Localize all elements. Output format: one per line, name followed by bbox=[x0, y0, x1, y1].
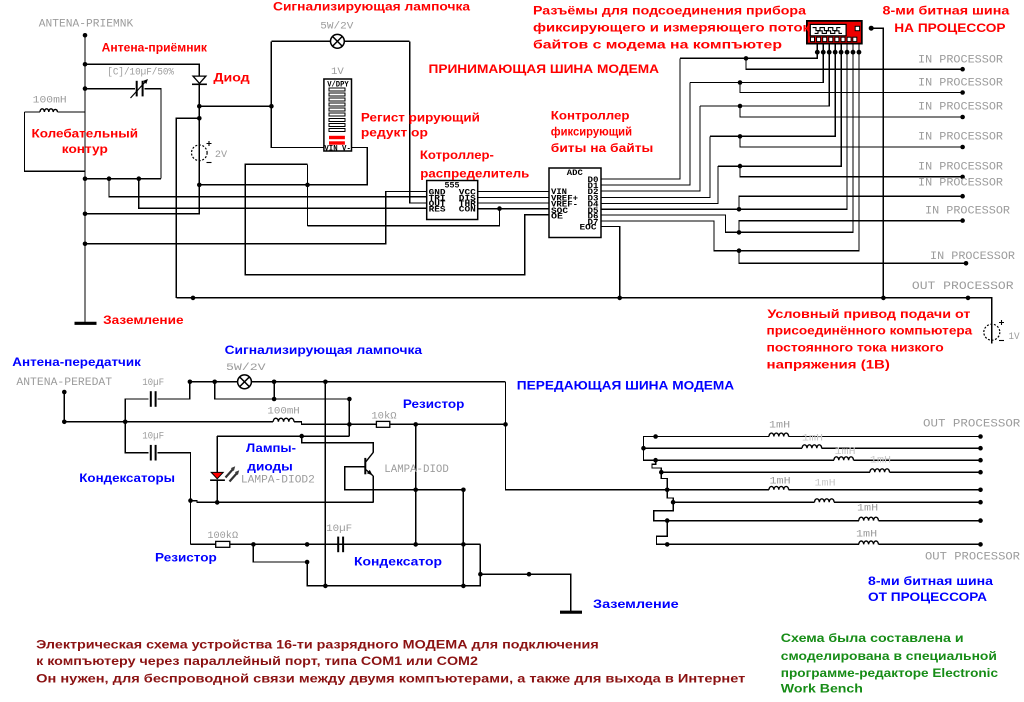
svg-text:1mH: 1mH bbox=[769, 421, 790, 432]
svg-text:Кондексаторы: Кондексаторы bbox=[79, 471, 175, 485]
wire transmit antenna vertical bbox=[63, 392, 65, 422]
svg-text:Котроллер-: Котроллер- bbox=[420, 148, 494, 162]
svg-text:Резистор: Резистор bbox=[403, 397, 465, 411]
wire bit6 ADC D5 feed bbox=[601, 52, 847, 209]
logic analyzer button squares bbox=[811, 37, 857, 41]
wire transistor collector feed bbox=[302, 436, 374, 452]
wire bit2 ADC D1 riser bbox=[601, 83, 690, 186]
svg-text:ПРИНИМАЮЩАЯ ШИНА МОДЕМА: ПРИНИМАЮЩАЯ ШИНА МОДЕМА bbox=[429, 62, 660, 76]
svg-text:ADC: ADC bbox=[567, 169, 583, 178]
wire LED line jog bbox=[191, 501, 374, 503]
node bit3 end bbox=[960, 115, 965, 120]
battery V2 minus sign bbox=[999, 340, 1004, 342]
node ANTENA-PRIEMNK antenna terminal bbox=[83, 33, 88, 38]
svg-text:1mH: 1mH bbox=[835, 447, 856, 458]
svg-text:1mH: 1mH bbox=[857, 504, 878, 515]
node junction CON tap bbox=[497, 206, 502, 211]
svg-text:IN PROCESSOR: IN PROCESSOR bbox=[918, 132, 1003, 144]
svg-text:1V: 1V bbox=[331, 67, 344, 78]
lamp X2 5W/2V bbox=[238, 375, 252, 389]
svg-text:[C]/10µF/50%: [C]/10µF/50% bbox=[107, 67, 174, 79]
wire emitter vertical bbox=[372, 476, 374, 502]
wire bank staircase bbox=[644, 437, 656, 461]
wire bit5 upper level bbox=[718, 52, 841, 166]
svg-text:смоделирована в специальной: смоделирована в специальной bbox=[781, 649, 997, 663]
inductor L1 100mH bumps bbox=[40, 109, 58, 112]
node junction device branch bbox=[881, 296, 886, 301]
logic analyzer side terminal dot bbox=[869, 26, 874, 31]
node junction lamp bypass right bbox=[272, 380, 277, 385]
svg-text:программе-редакторе Electroni: программе-редакторе Electronic bbox=[781, 666, 999, 680]
node junction 100k taps bbox=[251, 542, 256, 547]
inductor bank row5 1mH bbox=[665, 486, 983, 492]
svg-text:1mH: 1mH bbox=[802, 434, 823, 445]
svg-text:IN PROCESSOR: IN PROCESSOR bbox=[925, 205, 1010, 217]
wire bargraph V- to ground net bbox=[199, 148, 367, 185]
node junction EOC bbox=[617, 296, 622, 301]
node bit4 jog bbox=[738, 134, 743, 139]
wire emitter line right bbox=[373, 489, 463, 491]
node junction emitter line bbox=[413, 488, 418, 493]
svg-text:ANTENA-PEREDAT: ANTENA-PEREDAT bbox=[16, 377, 112, 389]
node junction mystery bbox=[191, 296, 196, 301]
svg-text:Колебательный: Колебательный bbox=[32, 126, 139, 140]
svg-text:100mH: 100mH bbox=[33, 96, 67, 107]
battery V2 1V dotted circle bbox=[984, 324, 1000, 340]
node junction diode to 1V feed bbox=[197, 116, 202, 121]
wire x349 vertical bbox=[348, 399, 350, 436]
svg-text:Электрическая схема устройст: Электрическая схема устройства 16-ти раз… bbox=[36, 638, 599, 652]
node junction y436 bbox=[299, 434, 304, 439]
LED D2 cathode bar bbox=[210, 479, 225, 481]
wire 100k line right bbox=[230, 543, 481, 545]
diode D1 bbox=[192, 76, 207, 84]
node junction lamp line x325 bbox=[323, 380, 328, 385]
svg-text:Антена-передатчик: Антена-передатчик bbox=[12, 355, 142, 369]
wire bit6 to IN PROCESSOR bbox=[739, 196, 963, 209]
svg-text:Заземление: Заземление bbox=[103, 313, 184, 327]
wire C1 right lead up to lamp line bbox=[158, 382, 190, 399]
wire 555 THR to ADC VREF- bbox=[478, 202, 549, 204]
svg-text:IN PROCESSOR: IN PROCESSOR bbox=[918, 54, 1003, 66]
bargraph U2 V/DPY body bbox=[324, 79, 352, 151]
bargraph U2 red segments bbox=[329, 136, 345, 139]
inductor bank row2 1mH bbox=[641, 445, 983, 451]
LED D2 LAMPA-DIOD2 triangle bbox=[211, 472, 223, 478]
wire lamp left vertical to bargraph VIN bbox=[271, 41, 324, 147]
svg-text:100mH: 100mH bbox=[267, 406, 299, 417]
inductor bank row8 1mH bbox=[665, 541, 983, 547]
inductor bank row3 1mH bbox=[653, 457, 983, 463]
node junction antenna line bbox=[62, 420, 67, 425]
wire bit2 upper level bbox=[690, 52, 823, 82]
inductor bank row7 1mH bbox=[665, 517, 983, 523]
node junction diode output bbox=[197, 104, 202, 109]
node junction x349 top bbox=[347, 397, 352, 402]
capacitor C-var arrow bbox=[131, 81, 147, 99]
svg-text:IN PROCESSOR: IN PROCESSOR bbox=[918, 177, 1003, 189]
logic analyzer squarewave traces bbox=[813, 28, 841, 31]
node junction lamp bypass left bbox=[212, 380, 217, 385]
svg-text:диоды: диоды bbox=[247, 459, 292, 473]
wire bus tap to 555 TRI bbox=[109, 179, 427, 197]
wire transmit antenna long line left part bbox=[64, 421, 273, 423]
ground GND2 bar bbox=[560, 611, 582, 614]
node junction x349 tap bbox=[347, 422, 352, 427]
svg-text:ANTENA-PRIEMNK: ANTENA-PRIEMNK bbox=[39, 19, 134, 31]
svg-text:байтов с модема на компъют: байтов с модема на компъютер bbox=[533, 38, 782, 52]
svg-text:555: 555 bbox=[445, 181, 460, 190]
node junction emitter line end bbox=[461, 488, 466, 493]
node OUT line end bbox=[966, 296, 971, 301]
svg-text:1mH: 1mH bbox=[770, 477, 791, 488]
wire x307 down to 586 line bbox=[307, 544, 480, 586]
resistor R1 10k body bbox=[376, 421, 389, 427]
svg-text:ОТ ПРОЦЕССОРА: ОТ ПРОЦЕССОРА bbox=[868, 590, 987, 604]
svg-text:к компъютеру через параллейн: к компъютеру через параллейный порт, тип… bbox=[36, 654, 478, 668]
transistor Q1 LAMPA-DIOD bbox=[365, 452, 373, 476]
node junction bypass-399 bbox=[272, 397, 277, 402]
svg-text:1V: 1V bbox=[1009, 332, 1020, 343]
capacitor C3 plates bbox=[337, 537, 339, 553]
wire ADC EOC to 1V line bbox=[601, 227, 620, 298]
svg-text:напряжения (1В): напряжения (1В) bbox=[767, 357, 890, 371]
svg-text:Work Bench: Work Bench bbox=[781, 682, 863, 696]
wire to ground GND2 bbox=[480, 574, 570, 611]
node bit8 end bbox=[964, 261, 969, 266]
wire bit3 ADC D2 riser bbox=[601, 106, 700, 191]
svg-text:OE: OE bbox=[551, 212, 563, 221]
svg-text:10µF: 10µF bbox=[326, 524, 352, 535]
svg-text:Схема была составлена и: Схема была составлена и bbox=[781, 631, 964, 645]
svg-text:10µF: 10µF bbox=[142, 431, 164, 442]
svg-text:LAMPA-DIOD: LAMPA-DIOD bbox=[384, 464, 449, 476]
wire x415 vertical bbox=[415, 424, 417, 544]
wire analyzer pin stubs bbox=[817, 44, 859, 53]
svg-text:OUT PROCESSOR: OUT PROCESSOR bbox=[923, 419, 1021, 431]
chip U1 555 body bbox=[427, 181, 478, 220]
wire diode cathode down through 2V source to ground line bbox=[85, 84, 199, 214]
wire analyzer terminal to OUT line bbox=[871, 28, 883, 298]
node junction 562 end bbox=[305, 560, 310, 565]
wire bit3 to IN PROCESSOR bbox=[740, 106, 963, 117]
wire tank circuit left and bottom bbox=[25, 112, 86, 171]
node junction at x505 bbox=[503, 422, 508, 427]
svg-text:Контроллер: Контроллер bbox=[551, 108, 630, 122]
wire 555 DIS to ADC VREF+ bbox=[478, 197, 549, 199]
node junction ground tap bbox=[478, 572, 483, 577]
svg-text:IN PROCESSOR: IN PROCESSOR bbox=[930, 251, 1015, 263]
svg-text:1mH: 1mH bbox=[815, 479, 836, 490]
wire lamp right drop bbox=[273, 382, 275, 399]
svg-text:Разъёмы для подсоединения п: Разъёмы для подсоединения прибора bbox=[533, 4, 806, 18]
wire diode output to lamp-left vertical bbox=[199, 105, 271, 107]
svg-text:8-ми битная шина: 8-ми битная шина bbox=[883, 4, 1010, 18]
capacitor C-var plates bbox=[136, 81, 138, 97]
node junction antenna-diode bbox=[83, 62, 88, 67]
svg-text:IN PROCESSOR: IN PROCESSOR bbox=[918, 102, 1003, 114]
node bit1 end bbox=[960, 67, 965, 72]
wire CON net lower link bbox=[308, 209, 500, 226]
node analyzer pin dots bbox=[815, 50, 861, 55]
node bit8 jog bbox=[737, 248, 742, 253]
node junction variable cap tap bbox=[83, 86, 88, 91]
wire bit1 ADC D0 riser bbox=[601, 58, 680, 179]
node junction after R1 bbox=[413, 422, 418, 427]
wire transistor base loop bbox=[345, 467, 373, 490]
node junction V- net vertical bbox=[305, 183, 310, 188]
svg-text:1mH: 1mH bbox=[870, 456, 891, 467]
bargraph U2 white segments bbox=[329, 88, 345, 131]
svg-text:распределитель: распределитель bbox=[420, 167, 529, 181]
svg-text:Регист рирующий: Регист рирующий bbox=[361, 111, 480, 125]
capacitor C1 plates bbox=[150, 391, 152, 407]
svg-text:Сигнализирующая лампочка: Сигнализирующая лампочка bbox=[225, 343, 423, 357]
wire x463 vertical bbox=[462, 490, 464, 586]
wire bit8 ADC D7 feed bbox=[601, 52, 859, 251]
node bit7 end bbox=[960, 218, 965, 223]
wire bit1 to IN PROCESSOR bbox=[746, 58, 963, 69]
svg-text:2V: 2V bbox=[215, 150, 227, 161]
wire y436 line bbox=[217, 435, 349, 437]
node junction caps tap bbox=[123, 420, 128, 425]
svg-text:1mH: 1mH bbox=[856, 530, 877, 541]
battery V1 2V dotted circle bbox=[192, 145, 208, 161]
node junction bus RES tap bbox=[137, 176, 142, 181]
svg-text:100kΩ: 100kΩ bbox=[207, 530, 238, 542]
wire bit1 upper level bbox=[680, 52, 817, 58]
inductor bank row1 1mH bbox=[653, 433, 983, 439]
svg-text:IN PROCESSOR: IN PROCESSOR bbox=[918, 161, 1003, 173]
node junction on lamp-left vertical bbox=[269, 104, 274, 109]
svg-text:5W/2V: 5W/2V bbox=[226, 362, 266, 374]
wire sub line 562 bbox=[253, 544, 307, 562]
svg-text:OUT PROCESSOR: OUT PROCESSOR bbox=[912, 281, 1014, 293]
wire C2 right lead down bbox=[158, 453, 191, 545]
node junction 586 line bbox=[323, 584, 328, 589]
node junction lamp line left bbox=[188, 380, 193, 385]
svg-text:Лампы-: Лампы- bbox=[246, 441, 296, 455]
wire lamp bypass bbox=[215, 382, 350, 399]
wire resistor R1 right lead bbox=[390, 423, 506, 425]
wire antenna line after inductor bbox=[294, 422, 376, 425]
ground GND1 bar bbox=[75, 322, 97, 325]
wire bit3 upper level bbox=[700, 52, 829, 106]
svg-text:RES: RES bbox=[429, 205, 446, 214]
wire 555 CON to ADC SOC bbox=[478, 208, 549, 210]
wire lamp right vertical to 555 OUT bbox=[410, 41, 427, 203]
svg-text:LAMPA-DIOD2: LAMPA-DIOD2 bbox=[241, 474, 315, 486]
wire variable cap right lead down to bus bbox=[144, 89, 161, 179]
svg-text:Сигнализирующая лампочка: Сигнализирующая лампочка bbox=[273, 0, 470, 14]
svg-text:Заземление: Заземление bbox=[593, 597, 679, 611]
svg-text:10kΩ: 10kΩ bbox=[371, 410, 396, 422]
node bit5 jog bbox=[738, 164, 743, 169]
svg-text:редукт ор: редукт ор bbox=[361, 126, 428, 140]
inductor bank row4 1mH bbox=[659, 469, 983, 475]
svg-text:фиксирующего и измеряющего: фиксирующего и измеряющего поток bbox=[533, 21, 811, 35]
inductor bank row6 1mH bbox=[671, 499, 983, 505]
node junction ground-2V bbox=[83, 212, 88, 217]
svg-text:CON: CON bbox=[459, 205, 476, 214]
node bit2 jog bbox=[738, 80, 743, 85]
node junction 2V minus tap bbox=[197, 183, 202, 188]
wire bit4 upper level bbox=[710, 52, 835, 136]
node junction bus left bbox=[83, 176, 88, 181]
wire ground bus y179 bbox=[85, 178, 161, 180]
svg-text:Условный привод подачи от: Условный привод подачи от bbox=[767, 307, 970, 321]
capacitor C2 plates bbox=[150, 445, 152, 461]
svg-text:V/DPY: V/DPY bbox=[327, 80, 349, 89]
svg-text:Антена-приёмник: Антена-приёмник bbox=[102, 41, 208, 55]
wire lamp top line bbox=[271, 40, 330, 42]
wire antenna to diode anode bbox=[85, 64, 199, 76]
node bit1 jog bbox=[744, 56, 749, 61]
node junction C2-LED line bbox=[188, 498, 193, 503]
wire bus tap to 555 RES bbox=[139, 179, 427, 209]
svg-text:Кондексатор: Кондексатор bbox=[354, 555, 442, 569]
svg-text:EOC: EOC bbox=[580, 224, 597, 233]
svg-text:IN PROCESSOR: IN PROCESSOR bbox=[918, 78, 1003, 90]
capacitor C1 10uF branch bbox=[125, 399, 149, 422]
wire antenna vertical to ground bbox=[84, 35, 86, 322]
wire V- net riser x307 bbox=[307, 164, 309, 225]
wire bit4 to IN PROCESSOR bbox=[740, 136, 963, 147]
wire x325 long vertical bbox=[324, 382, 326, 586]
wire bit5 ADC D4 riser bbox=[601, 166, 718, 203]
svg-text:биты на байты: биты на байты bbox=[551, 141, 654, 155]
node junction on ground wire bbox=[527, 572, 532, 577]
wire bit2 to IN PROCESSOR bbox=[740, 83, 963, 93]
inductor L1 100mH leads bbox=[25, 111, 41, 113]
battery V2 plus sign bbox=[999, 320, 1004, 325]
node bit6 end bbox=[960, 194, 965, 199]
wire bit8 to IN PROCESSOR bbox=[739, 251, 966, 264]
lamp X1 5W/2V bbox=[331, 34, 345, 48]
wire bit4 ADC D3 riser bbox=[601, 136, 710, 197]
node junction LED bottom bbox=[215, 500, 220, 505]
wire bit5 to IN PROCESSOR bbox=[740, 166, 963, 177]
logic analyzer XLA1 red body bbox=[807, 21, 862, 44]
node bit6 jog bbox=[737, 207, 742, 212]
logic analyzer display bbox=[810, 24, 846, 35]
wire bit7 to IN PROCESSOR bbox=[739, 221, 963, 233]
svg-text:Он нужен, для беспроводной: Он нужен, для беспроводной связи между д… bbox=[36, 671, 745, 685]
inductor L2 100mH bumps bbox=[273, 418, 294, 422]
wire ground to 555 GND bbox=[85, 192, 427, 244]
wire x505 vertical to bank feed bbox=[506, 382, 668, 490]
wire bit7 ADC D6 feed bbox=[601, 52, 853, 232]
battery V1 minus sign bbox=[207, 162, 212, 164]
svg-text:фиксирующий: фиксирующий bbox=[551, 125, 632, 139]
node junction ground to 555 GND line bbox=[83, 242, 88, 247]
node bit7 jog bbox=[737, 230, 742, 235]
capacitor C2 10uF branch bbox=[125, 422, 149, 453]
battery V1 plus sign bbox=[207, 141, 212, 146]
svg-text:Диод: Диод bbox=[213, 71, 250, 85]
svg-text:VIN V-: VIN V- bbox=[324, 145, 351, 154]
logic analyzer LED square bbox=[855, 26, 859, 30]
node bit4 end bbox=[960, 145, 965, 150]
node bit5 end bbox=[960, 175, 965, 180]
node bit3 jog bbox=[738, 104, 743, 109]
node ANTENA-PEREDAT antenna terminal bbox=[62, 390, 67, 395]
wire V- net upper link bbox=[245, 164, 549, 274]
wire lamp line bbox=[190, 381, 238, 383]
svg-text:Резистор: Резистор bbox=[155, 551, 217, 565]
svg-text:8-ми битная шина: 8-ми битная шина bbox=[868, 574, 993, 588]
wire 100k line bbox=[191, 543, 216, 545]
svg-text:контур: контур bbox=[62, 142, 108, 156]
LED D2 emission arrows bbox=[226, 469, 238, 482]
svg-text:ПЕРЕДАЮЩАЯ ШИНА МОДЕМА: ПЕРЕДАЮЩАЯ ШИНА МОДЕМА bbox=[517, 378, 735, 392]
chip U3 ADC body bbox=[549, 168, 601, 238]
wire to variable capacitor bbox=[85, 88, 135, 90]
node bit2 end bbox=[960, 90, 965, 95]
svg-text:10µF: 10µF bbox=[142, 378, 164, 389]
wire 555 VCC to ADC VIN bbox=[478, 191, 549, 193]
svg-text:присоединённого компьютера: присоединённого компьютера bbox=[767, 324, 973, 338]
wire diode node to long 1V line bbox=[176, 118, 199, 298]
LED D2 leads bbox=[216, 480, 218, 502]
svg-text:OUT PROCESSOR: OUT PROCESSOR bbox=[925, 552, 1020, 564]
node junction bus TRI tap bbox=[107, 176, 112, 181]
svg-text:постоянного тока низкого: постоянного тока низкого bbox=[767, 340, 944, 354]
resistor R2 100k body bbox=[216, 541, 230, 547]
wire long 1V OUT PROCESSOR line bbox=[176, 298, 991, 344]
svg-text:5W/2V: 5W/2V bbox=[320, 20, 353, 32]
svg-text:НА ПРОЦЕССОР: НА ПРОЦЕССОР bbox=[894, 21, 1005, 35]
